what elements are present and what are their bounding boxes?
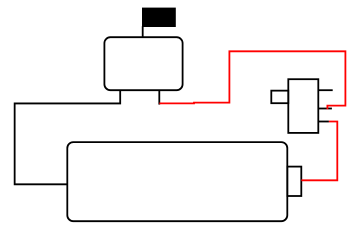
wire: switch right terminal to regulator pin 2 (red) <box>159 51 345 109</box>
regulator U1 body <box>288 79 318 133</box>
switch SW1 body <box>104 37 182 90</box>
battery B1 body <box>67 142 287 221</box>
regulator U1 left mounting tab <box>271 91 288 104</box>
switch SW1 key flag (solid black) <box>142 8 176 27</box>
battery B1 right terminal tab <box>287 167 301 196</box>
wire: switch left terminal to battery left terminal (black) <box>15 90 121 184</box>
switch SW1 key stem wire <box>142 26 144 37</box>
regulator U1 pin 3 (bottom) <box>318 121 329 123</box>
switch SW1 right terminal lead <box>158 90 160 104</box>
wire: regulator pin 3 to battery right terminal (red) <box>301 122 337 181</box>
regulator U1 pin 1 (top) <box>318 89 332 91</box>
regulator U1 pin 2 (middle) <box>318 108 332 110</box>
